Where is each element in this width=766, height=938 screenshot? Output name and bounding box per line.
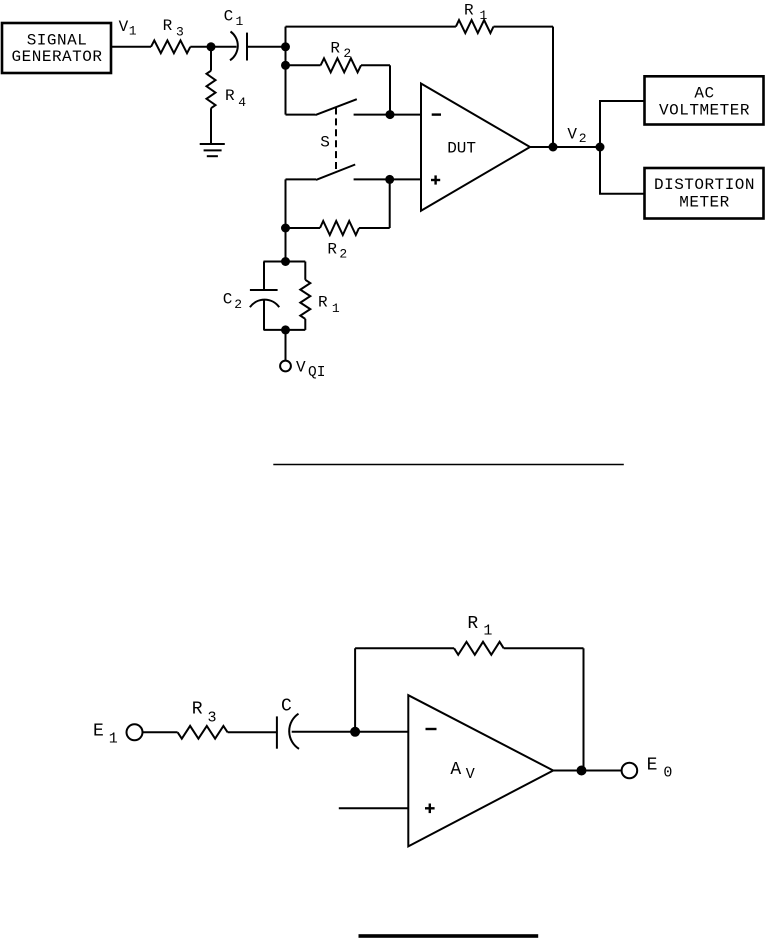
label R1 lower (467, 614, 492, 640)
junction dot inverting input (386, 110, 395, 119)
wire DUT output (530, 146, 600, 148)
feedback vertical right (552, 27, 554, 147)
node A dot (281, 42, 290, 51)
terminal E0 (622, 763, 638, 779)
svg-text:0: 0 (663, 765, 672, 782)
resistor R2 lower (320, 221, 359, 235)
figure separator rule (273, 464, 624, 466)
bottom rule bar (359, 934, 539, 938)
svg-text:1: 1 (332, 301, 340, 316)
svg-text:METER: METER (679, 193, 730, 211)
AV plus sign (425, 804, 435, 814)
wire node to C1 (211, 46, 237, 48)
svg-text:C: C (281, 697, 292, 717)
label R3 lower (192, 700, 217, 727)
svg-text:V: V (466, 766, 475, 783)
svg-text:DISTORTION: DISTORTION (654, 176, 755, 194)
feedback top wire right lower (504, 647, 584, 649)
junction dot inverting node lower (350, 727, 360, 737)
svg-text:C: C (224, 8, 234, 26)
svg-text:2: 2 (339, 247, 347, 262)
wire R3 to node V1/R4 (190, 46, 211, 48)
feedback top wire left (286, 26, 456, 28)
svg-text:S: S (320, 134, 330, 152)
resistor R3 (151, 40, 190, 53)
wire R2 upper right vertical (389, 65, 391, 114)
svg-text:VOLTMETER: VOLTMETER (659, 101, 750, 119)
resistor R1 top (456, 20, 494, 33)
svg-text:A: A (450, 760, 461, 780)
svg-text:3: 3 (208, 709, 217, 726)
svg-text:DUT: DUT (447, 140, 476, 158)
svg-text:R: R (163, 17, 173, 35)
wire R2 lower right vertical (389, 179, 391, 228)
svg-text:2: 2 (234, 297, 242, 312)
op-amp DUT (421, 84, 530, 211)
ground (200, 144, 225, 156)
svg-text:V: V (119, 18, 129, 36)
svg-text:GENERATOR: GENERATOR (12, 48, 103, 66)
wire upper switch contact to node (354, 114, 390, 116)
junction dot V2 branch (596, 143, 605, 152)
wire AV output (553, 770, 621, 772)
svg-text:AC: AC (694, 85, 714, 103)
svg-text:C: C (223, 290, 233, 308)
DUT minus sign (432, 113, 441, 115)
svg-text:V: V (296, 359, 306, 377)
wire generator to R3 (111, 46, 151, 48)
wire to distortion meter (600, 147, 645, 194)
svg-text:R: R (464, 2, 474, 20)
wire to DUT noninverting input (390, 178, 421, 180)
svg-text:1: 1 (236, 14, 244, 29)
label E0 (647, 756, 673, 782)
wire AV noninverting stub (339, 807, 409, 809)
label C1 (224, 8, 244, 29)
svg-text:R: R (225, 87, 235, 105)
resistor R1 lower (454, 642, 504, 655)
label R2 upper (330, 40, 351, 61)
label R1 parallel (318, 293, 340, 316)
wire node to R2 upper (286, 64, 321, 66)
junction dot noninverting input (385, 175, 394, 184)
junction node V1/R4 (207, 42, 216, 51)
parallel combo top rail (264, 261, 306, 263)
label AV (450, 760, 474, 783)
resistor R2 upper (321, 58, 361, 72)
svg-text:2: 2 (343, 46, 351, 61)
svg-text:V: V (567, 126, 577, 144)
wire C to inverting node (292, 731, 355, 733)
wire to upper switch pivot (286, 114, 316, 116)
label R4 (225, 87, 246, 110)
svg-text:1: 1 (129, 24, 137, 39)
svg-text:E: E (93, 721, 104, 741)
capacitor C1 (230, 32, 247, 61)
wire to VQI terminal (285, 330, 287, 361)
terminal VQI (280, 361, 291, 372)
switch S dashed link (335, 108, 337, 171)
feedback top wire right (494, 26, 554, 28)
svg-text:R: R (467, 614, 478, 634)
svg-text:E: E (647, 756, 658, 776)
svg-text:R: R (192, 700, 203, 720)
wire E1 to R3 (143, 731, 178, 733)
wire to AC voltmeter (600, 101, 645, 147)
AV minus sign (426, 728, 437, 730)
svg-text:1: 1 (483, 623, 492, 640)
svg-text:R: R (318, 293, 328, 311)
label R2 lower (327, 240, 347, 261)
junction dot parallel top (281, 257, 290, 266)
AC voltmeter box (645, 76, 764, 124)
label VQI (296, 359, 325, 381)
terminal E1 (127, 724, 143, 740)
wire R3 to C lower (228, 731, 277, 733)
wire R2 lower to corner (359, 227, 390, 229)
signal generator box (2, 23, 111, 73)
resistor R3 lower (178, 726, 228, 739)
switch S lower blade (316, 165, 355, 180)
junction dot output lower (577, 766, 587, 776)
label R1 top (464, 2, 488, 24)
switch S upper blade (315, 99, 357, 115)
vertical bus at node A (285, 27, 287, 115)
svg-text:SIGNAL: SIGNAL (27, 32, 88, 50)
capacitor C lower (277, 714, 299, 749)
label C2 (223, 290, 242, 312)
junction dot feedback/output (549, 143, 558, 152)
op-amp AV (408, 695, 553, 846)
svg-text:1: 1 (109, 731, 118, 748)
capacitor C2 (250, 262, 279, 330)
distortion meter box (645, 168, 764, 219)
wire node to AV inverting input (355, 731, 408, 733)
feedback vertical right lower (583, 648, 585, 770)
svg-text:1: 1 (480, 8, 488, 23)
parallel combo bottom rail (264, 329, 306, 331)
wire to lower switch pivot (286, 178, 317, 180)
wire lower-left vertical (285, 179, 287, 261)
resistor R4 lead + body (207, 47, 216, 144)
feedback vertical left lower (354, 648, 356, 732)
feedback top wire left lower (355, 647, 454, 649)
svg-text:QI: QI (308, 365, 325, 381)
svg-text:4: 4 (238, 95, 246, 110)
wire node to R2 lower (286, 227, 321, 229)
label V1 (119, 18, 137, 39)
svg-text:3: 3 (176, 25, 184, 40)
label E1 (93, 721, 118, 747)
wire to DUT inverting input (390, 114, 421, 116)
svg-text:2: 2 (579, 131, 587, 146)
wire R2 upper to corner (361, 64, 390, 66)
node dot R2 upper left (281, 61, 290, 70)
label R3 (163, 17, 184, 40)
junction dot parallel bottom (281, 325, 290, 334)
svg-text:R: R (327, 240, 337, 258)
svg-text:R: R (330, 40, 340, 58)
resistor R1 parallel (300, 262, 310, 330)
junction dot R2 lower (281, 224, 290, 233)
DUT plus sign (431, 175, 440, 184)
label V2 (567, 126, 586, 147)
wire lower switch contact to node (354, 178, 390, 180)
wire C1 to node A (247, 46, 286, 48)
